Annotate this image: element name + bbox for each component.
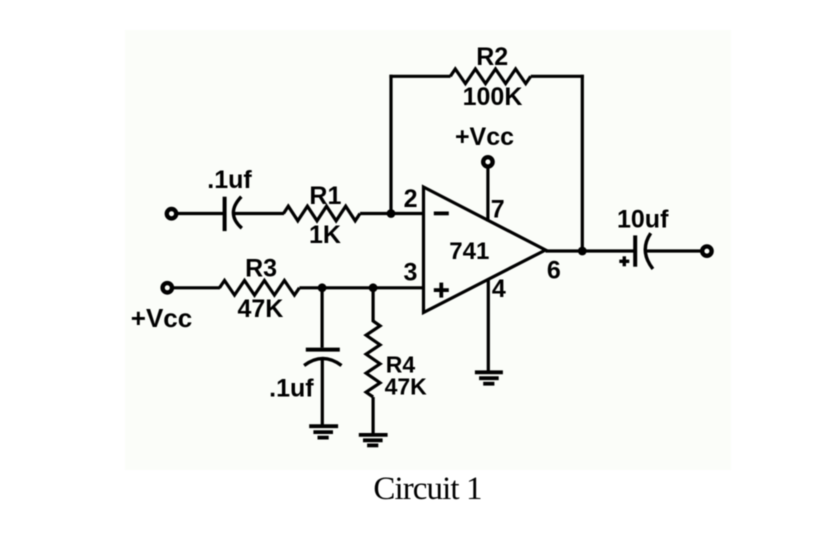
label R2 xyxy=(476,43,508,71)
svg-text:R1: R1 xyxy=(309,182,341,210)
svg-text:100K: 100K xyxy=(463,83,523,111)
output terminal J2 xyxy=(702,246,711,255)
svg-text:Circuit 1: Circuit 1 xyxy=(373,471,481,507)
svg-text:1K: 1K xyxy=(309,221,341,249)
svg-text:47K: 47K xyxy=(237,295,283,323)
node C junction to C2 xyxy=(318,283,327,292)
label C2 value .1uf xyxy=(269,375,314,403)
label pin 7 xyxy=(491,196,505,224)
label pin 3 xyxy=(403,259,417,287)
svg-text:2: 2 xyxy=(404,185,418,213)
wire: J1 to C1 xyxy=(178,212,224,215)
label R4 xyxy=(386,351,416,377)
caption Circuit 1 xyxy=(373,471,481,507)
label R1 xyxy=(309,182,341,210)
label R3 xyxy=(245,255,277,283)
label R4 value 47K xyxy=(385,373,428,399)
wire: R3 to op-amp pin 3 xyxy=(299,286,423,289)
label C3 value 10uf xyxy=(617,206,669,234)
op-amp U1 741 xyxy=(424,187,546,313)
wire: node C down to C2 xyxy=(321,288,324,348)
svg-text:741: 741 xyxy=(449,238,489,265)
wire: pin 4 down to ground xyxy=(487,280,490,372)
svg-text:.1uf: .1uf xyxy=(269,375,314,403)
node A junction at inverting input xyxy=(387,209,396,218)
wire: feedback right down to output node xyxy=(581,75,584,251)
label +Vcc top xyxy=(455,123,514,151)
capacitor C1 xyxy=(225,197,242,231)
label U1 741 xyxy=(449,238,489,265)
label pin 6 xyxy=(547,257,561,285)
label R1 value 1K xyxy=(309,221,341,249)
resistor R4 xyxy=(366,321,380,397)
wire: node D down to R4 xyxy=(372,288,375,322)
capacitor C2 xyxy=(304,350,341,366)
svg-text:.1uf: .1uf xyxy=(207,166,252,194)
node D junction to R4 xyxy=(369,283,378,292)
wire: C2 to ground xyxy=(321,359,324,425)
terminal +Vcc lower xyxy=(163,283,172,292)
label pin 4 xyxy=(492,275,506,303)
label C3 polarity plus xyxy=(619,256,629,266)
capacitor C3 xyxy=(635,233,653,269)
resistor R2 xyxy=(450,69,530,84)
schematic background xyxy=(125,30,731,470)
wire: node A up feedback left xyxy=(389,75,392,214)
ground for pin 4 xyxy=(475,372,503,383)
wire: C3 to output terminal J2 xyxy=(646,249,701,252)
svg-text:6: 6 xyxy=(547,257,561,285)
wire: Vcc lower to R3 xyxy=(173,286,220,289)
wire: op-amp output to C3 xyxy=(546,249,634,252)
svg-text:R3: R3 xyxy=(245,255,277,283)
ground for C2 xyxy=(309,426,338,437)
wire: C1 to R1 xyxy=(235,212,285,215)
resistor R3 xyxy=(220,281,300,296)
label R2 value 100K xyxy=(463,83,523,111)
svg-text:10uf: 10uf xyxy=(617,206,669,234)
wire: feedback top to R2 xyxy=(389,75,450,78)
node B output junction xyxy=(578,247,587,256)
svg-text:+Vcc: +Vcc xyxy=(131,303,192,333)
wire: R1 to op-amp pin 2 xyxy=(360,212,424,215)
wire: R2 to feedback right corner xyxy=(531,75,584,78)
ground for R4 xyxy=(359,435,388,446)
input terminal J1 xyxy=(167,209,176,218)
label +Vcc lower xyxy=(131,303,192,333)
label C1 value .1uf xyxy=(207,166,252,194)
svg-text:R2: R2 xyxy=(476,43,508,71)
terminal +Vcc top xyxy=(483,157,492,166)
wire: Vcc terminal to pin 7 xyxy=(486,168,489,222)
label R3 value 47K xyxy=(237,295,283,323)
svg-text:4: 4 xyxy=(492,275,506,303)
resistor R1 xyxy=(284,206,361,221)
svg-text:+Vcc: +Vcc xyxy=(455,123,514,151)
svg-text:3: 3 xyxy=(403,259,417,287)
svg-text:47K: 47K xyxy=(385,373,428,399)
wire: R4 to ground xyxy=(372,397,375,433)
label pin 2 xyxy=(404,185,418,213)
svg-text:7: 7 xyxy=(491,196,505,224)
